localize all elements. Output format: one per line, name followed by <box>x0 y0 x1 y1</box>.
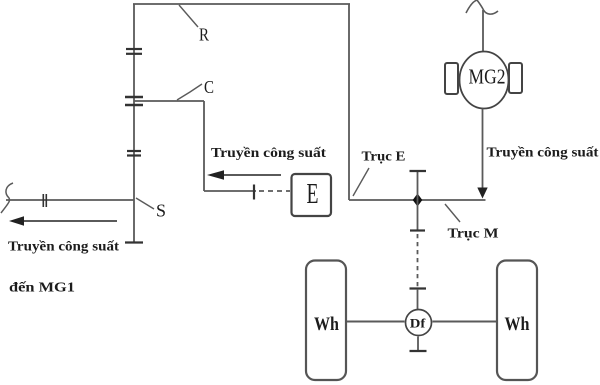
shaft end tick above junction <box>410 170 427 172</box>
svg-text:Truyền công suất: Truyền công suất <box>487 145 600 160</box>
wire below junction solid <box>417 200 419 230</box>
svg-text:Trục E: Trục E <box>362 150 406 165</box>
shaft end tick bottom of left shaft <box>125 241 143 243</box>
power flow arrowhead down onto Truc M <box>477 188 487 199</box>
leader line Truc E <box>353 168 369 196</box>
wire axle to left wheel <box>346 321 405 323</box>
bearing tick T2 at node C <box>125 97 143 105</box>
wire axle to right wheel <box>433 321 498 323</box>
wire MG2 down shaft <box>482 109 484 190</box>
wire into differential <box>417 289 419 309</box>
clutch tick before E <box>253 185 255 200</box>
svg-text:MG2: MG2 <box>469 65 506 89</box>
leader line S <box>136 198 154 209</box>
svg-text:Wh: Wh <box>505 314 530 335</box>
clutch tick below junction <box>410 229 425 231</box>
wire stub below differential <box>417 337 419 351</box>
svg-text:Truyền công suất: Truyền công suất <box>211 145 327 160</box>
svg-text:Df: Df <box>410 316 426 331</box>
wire C branch vertical <box>203 101 205 191</box>
wire right vertical from R to axle <box>348 4 350 200</box>
power flow arrow near E <box>207 170 281 179</box>
junction node on Truc M <box>413 194 423 207</box>
bearing tick on S shaft <box>43 194 46 207</box>
svg-text:đến MG1: đến MG1 <box>9 280 75 295</box>
svg-text:Truyền công suất: Truyền công suất <box>8 239 120 254</box>
dashed wire to engine E <box>259 190 290 192</box>
wire top horizontal R link <box>133 3 350 5</box>
wheel right Wh <box>497 261 537 381</box>
svg-text:S: S <box>156 201 166 221</box>
wire stub above junction <box>417 172 419 200</box>
shaft end tick below differential <box>410 350 427 352</box>
wheel left Wh <box>306 261 346 381</box>
svg-text:R: R <box>199 25 209 45</box>
wire C branch bottom horizontal to clutch <box>204 190 256 192</box>
leader line C <box>177 84 202 100</box>
MG2 left brush block <box>445 63 458 94</box>
svg-text:C: C <box>204 77 214 97</box>
bearing tick T1 on left shaft <box>126 49 142 54</box>
svg-text:Trục M: Trục M <box>448 227 499 242</box>
leader line R <box>179 5 198 27</box>
motor-generator MG2 body <box>460 52 509 109</box>
svg-text:Wh: Wh <box>314 314 339 335</box>
power flow arrow left (to MG1) <box>9 216 117 225</box>
wire S horizontal shaft to MG1 <box>6 199 134 201</box>
dashed propeller shaft <box>417 234 419 287</box>
MG2 right brush block <box>509 63 522 93</box>
wire axle Truc M horizontal <box>349 199 486 201</box>
leader line Truc M <box>445 204 460 222</box>
bearing tick T3 on left shaft <box>127 151 141 156</box>
wire MG2 upper stub <box>482 10 484 52</box>
svg-text:E: E <box>307 179 319 210</box>
break squiggle left end <box>1 183 13 213</box>
tick above differential <box>410 287 427 289</box>
differential Df body <box>406 310 432 336</box>
wire C branch horizontal <box>134 100 204 102</box>
engine box E <box>292 174 332 216</box>
wire left shaft vertical <box>133 4 135 243</box>
break squiggle above MG2 <box>466 0 498 14</box>
